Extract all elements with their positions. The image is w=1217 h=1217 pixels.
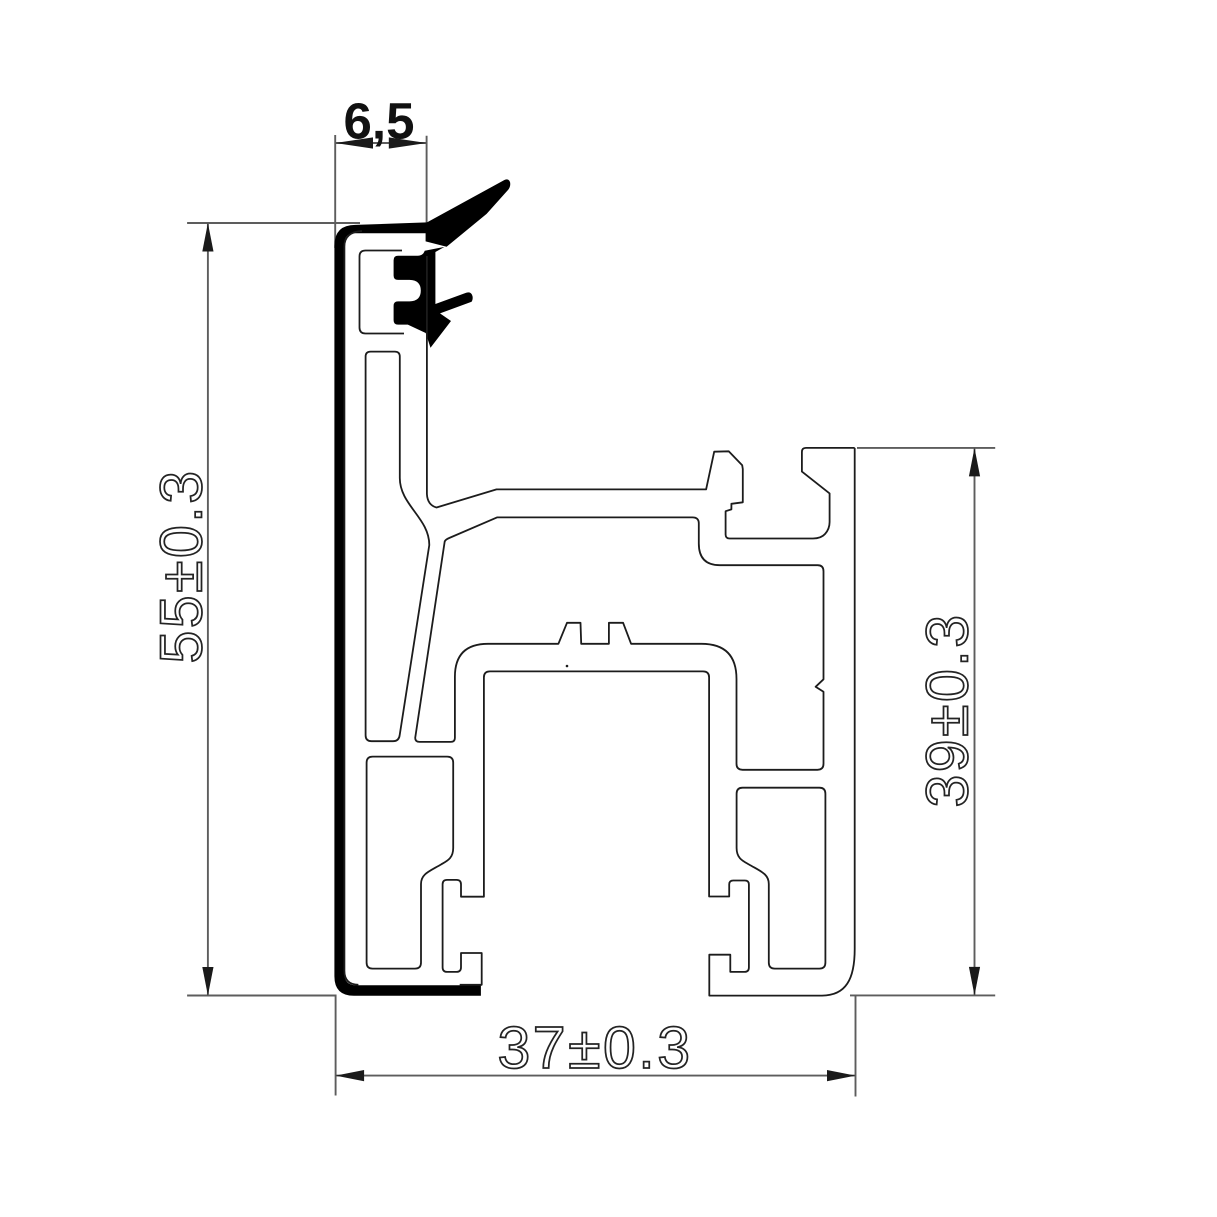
svg-text:55±0.3: 55±0.3 <box>149 468 215 663</box>
arrowhead 6,5 left <box>335 137 373 148</box>
dim 6,5 extension line right <box>426 136 428 223</box>
dim 55 extension line bottom <box>187 995 336 997</box>
dim 6,5 dimension line <box>335 142 426 144</box>
under-arm cavity boundary loop (strut right edge, arm bottom, box) <box>415 517 823 769</box>
arrowhead 37 right <box>827 1070 856 1081</box>
dim 37 extension line right <box>855 996 857 1097</box>
left foot chamber with screw S-curve <box>367 757 454 969</box>
arrowhead 39 bottom <box>969 967 980 996</box>
svg-text:37±0.3: 37±0.3 <box>497 1015 692 1081</box>
dim 39 extension line top <box>857 447 995 449</box>
arrowhead 55 top <box>202 223 213 252</box>
right foot chamber with screw S-curve <box>737 788 826 969</box>
left foot lip, C-slot, box inner walls, right foot C-slot, right wall outer <box>443 448 855 996</box>
svg-text:6,5: 6,5 <box>344 93 415 150</box>
aluminium top-left corner arc <box>344 231 362 247</box>
dim 55 dimension line <box>207 223 209 996</box>
dim 39 extension line bottom <box>850 994 995 996</box>
dim 37 extension line left <box>335 995 337 1096</box>
dim 55 extension line top <box>187 222 360 224</box>
gasket E-clip with lower fin <box>394 247 473 348</box>
tower outer right wall + arm top + hook + top edge <box>427 256 855 539</box>
dim 37 dimension line <box>336 1075 856 1077</box>
svg-text:39±0.3: 39±0.3 <box>915 612 981 807</box>
dim 39 dimension line <box>974 448 976 996</box>
long slot + strut left edge <box>366 352 430 742</box>
gasket band + top fin <box>334 179 510 995</box>
arrowhead 37 left <box>336 1070 365 1081</box>
dim 6,5 extension line left <box>334 135 336 248</box>
arrowhead 6,5 right <box>389 137 427 148</box>
aluminium outer left wall <box>344 247 358 985</box>
arrowhead 55 bottom <box>202 967 213 996</box>
small dot mark <box>566 665 569 668</box>
arrowhead 39 top <box>969 448 980 477</box>
small chamber <box>360 251 405 334</box>
